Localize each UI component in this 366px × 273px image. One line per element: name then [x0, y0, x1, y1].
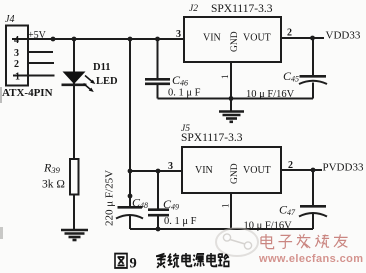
svg-text:VOUT: VOUT	[243, 33, 271, 44]
svg-text:VOUT: VOUT	[243, 165, 271, 176]
svg-text:1: 1	[15, 72, 20, 83]
svg-text:3: 3	[168, 161, 173, 172]
svg-text:J2: J2	[189, 4, 198, 14]
svg-text:10 μ F/16V: 10 μ F/16V	[246, 89, 295, 100]
svg-text:1: 1	[220, 75, 230, 80]
svg-text:3: 3	[14, 48, 19, 59]
svg-text:220 μ F/25V: 220 μ F/25V	[104, 170, 116, 226]
svg-text:C46: C46	[172, 73, 188, 88]
svg-text:SPX1117-3.3: SPX1117-3.3	[181, 132, 243, 144]
svg-text:2: 2	[288, 160, 293, 171]
svg-text:PVDD33: PVDD33	[323, 162, 364, 174]
svg-text:J4: J4	[5, 14, 14, 25]
svg-text:GND: GND	[230, 163, 240, 184]
svg-text:+5V: +5V	[28, 30, 47, 41]
svg-text:SPX1117-3.3: SPX1117-3.3	[211, 3, 273, 15]
svg-text:D11: D11	[93, 62, 111, 73]
svg-text:R39: R39	[43, 161, 61, 176]
svg-text:3k Ω: 3k Ω	[42, 179, 65, 191]
svg-text:4: 4	[14, 35, 19, 46]
svg-text:www.elecfans.com: www.elecfans.com	[258, 253, 363, 265]
svg-text:VIN: VIN	[195, 165, 213, 176]
svg-text:0. 1 μ F: 0. 1 μ F	[164, 216, 197, 227]
svg-text:GND: GND	[230, 31, 240, 52]
svg-text:ATX-4PIN: ATX-4PIN	[2, 87, 53, 99]
svg-text:3: 3	[176, 29, 181, 40]
svg-text:C45: C45	[283, 69, 299, 84]
svg-text:2: 2	[14, 59, 19, 70]
svg-text:VIN: VIN	[203, 33, 221, 44]
svg-text:C49: C49	[163, 197, 179, 212]
svg-text:9: 9	[130, 256, 137, 272]
svg-text:C47: C47	[279, 203, 296, 218]
svg-text:2: 2	[287, 28, 292, 39]
svg-text:VDD33: VDD33	[326, 30, 361, 42]
svg-text:1: 1	[221, 204, 231, 209]
svg-text:0. 1 μ F: 0. 1 μ F	[168, 88, 201, 99]
svg-text:LED: LED	[96, 76, 118, 87]
svg-text:C48: C48	[132, 196, 148, 211]
